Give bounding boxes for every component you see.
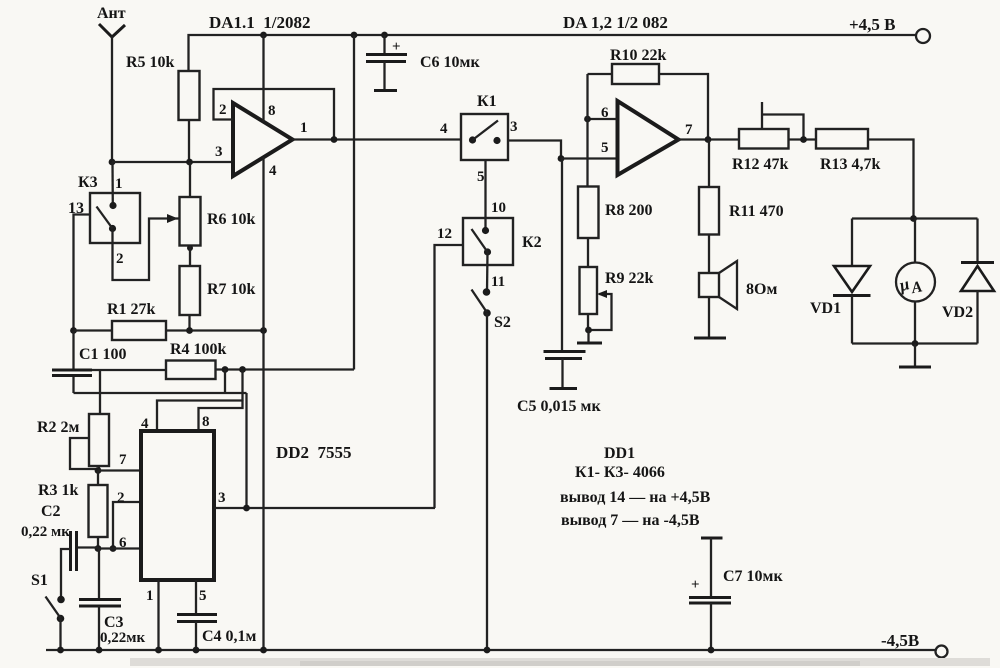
op-amp DA1.2 (601, 101, 693, 175)
svg-text:R2 2м: R2 2м (37, 419, 80, 436)
wire pin5 DA1.2 (561, 157, 618, 159)
svg-text:+: + (392, 39, 401, 55)
svg-text:R10 22k: R10 22k (610, 47, 667, 64)
analog switch K2 (463, 218, 542, 265)
svg-text:+4,5 В: +4,5 В (849, 15, 896, 34)
wire pin6 DA1.2 (588, 118, 618, 120)
node rail C7 (708, 647, 715, 654)
wire antenna to K3 pin1 (111, 162, 114, 206)
svg-text:VD2: VD2 (942, 304, 973, 321)
note DD1 (560, 445, 711, 529)
svg-text:3: 3 (218, 490, 226, 506)
svg-text:К2: К2 (522, 234, 542, 251)
svg-text:4: 4 (440, 121, 448, 137)
svg-text:1: 1 (115, 176, 123, 192)
wire bottom -4.5V rail (46, 649, 936, 651)
resistor R8 (578, 187, 653, 268)
resistor R4 (166, 341, 354, 379)
svg-text:R5 10k: R5 10k (126, 54, 175, 71)
wire DD2 pin3 output (214, 490, 435, 508)
node R1 row left (70, 327, 77, 334)
node meter bottom (899, 340, 931, 367)
wire K2 pin11 to S2 (487, 252, 505, 292)
svg-text:5: 5 (601, 140, 609, 156)
svg-text:DD1: DD1 (604, 445, 635, 462)
svg-text:5: 5 (477, 169, 485, 185)
IC DD2 7555 (141, 431, 352, 580)
wire DD2 pin8 bracket (199, 400, 243, 431)
node rail-pin8 (260, 32, 267, 39)
svg-text:R13 4,7k: R13 4,7k (820, 156, 881, 173)
wire pin3 input (112, 161, 233, 163)
svg-text:R8 200: R8 200 (605, 202, 653, 219)
wire R10 riser (586, 74, 588, 187)
svg-text:3: 3 (215, 144, 223, 160)
node R9 bottom (577, 327, 602, 343)
svg-text:вывод 7 — на -4,5В: вывод 7 — на -4,5В (561, 512, 700, 529)
svg-text:8: 8 (202, 414, 210, 430)
meter uA (896, 219, 935, 344)
node rail pin4riser (260, 647, 267, 654)
svg-text:DD2 7555: DD2 7555 (276, 443, 352, 462)
node R5-R6 (186, 159, 193, 166)
relay switch K3 (68, 174, 140, 267)
svg-text:2: 2 (117, 490, 125, 506)
svg-text:+: + (691, 577, 700, 593)
capacitor C7 (689, 538, 783, 650)
pin 4 riser DA1.1 long vertical (262, 157, 264, 650)
wire meter bottom (852, 342, 978, 344)
node rail C4 (193, 647, 200, 654)
wire R4row to R2 (99, 370, 101, 414)
wire DD2 pin2 jumper (113, 490, 141, 549)
node antenna-pin3 (109, 159, 116, 166)
svg-text:С4 0,1м: С4 0,1м (202, 628, 257, 645)
svg-text:К1: К1 (477, 93, 497, 110)
terminal -4.5V (881, 631, 948, 658)
node R7-row (186, 327, 193, 334)
resistor R2 trimmer (37, 414, 109, 471)
wire C1 bottom bus (74, 392, 247, 394)
svg-text:4: 4 (269, 163, 277, 179)
label DA1.1 (209, 13, 311, 32)
capacitor C4 (177, 615, 257, 651)
svg-text:К3: К3 (78, 174, 98, 191)
node R4-right (222, 366, 229, 393)
svg-text:12: 12 (437, 226, 452, 242)
svg-text:С7 10мк: С7 10мк (723, 568, 783, 585)
node rail pin1 (155, 647, 162, 654)
node meter top (910, 215, 917, 222)
capacitor C5 (517, 159, 601, 416)
node rail S2 (484, 647, 491, 654)
svg-text:R1 27k: R1 27k (107, 301, 156, 318)
svg-text:7: 7 (119, 452, 127, 468)
antenna Ant (97, 5, 126, 162)
svg-text:1: 1 (300, 120, 308, 136)
wire DD2 pin6 (98, 535, 141, 551)
svg-text:0,22мк: 0,22мк (100, 630, 145, 646)
capacitor C3 (79, 549, 145, 651)
node rail C3 (96, 647, 103, 654)
wire K3 pin2 to R6 wiper (113, 214, 180, 280)
wire DD2 pin4 bracket (141, 401, 243, 433)
svg-text:вывод 14 — на +4,5В: вывод 14 — на +4,5В (560, 489, 711, 506)
potentiometer R9 (580, 267, 654, 330)
svg-text:1: 1 (146, 588, 154, 604)
wire output DA1.1 (292, 138, 461, 140)
svg-text:DA 1,2 1/2 082: DA 1,2 1/2 082 (563, 13, 668, 32)
svg-text:R3 1k: R3 1k (38, 482, 79, 499)
wire feedback DA1.1 pin2 (214, 89, 335, 140)
node pin6-R8-R10 (584, 116, 591, 123)
node rail-C6 (381, 32, 388, 39)
diode VD1 (810, 219, 871, 344)
potentiometer R6 (180, 162, 256, 246)
svg-text:R6 10k: R6 10k (207, 211, 256, 228)
svg-text:2: 2 (116, 251, 124, 267)
wire DD2 pin5 (196, 580, 207, 614)
svg-text:С3: С3 (104, 614, 124, 631)
node supply drop (239, 366, 246, 400)
wire C1 to R4 (92, 369, 166, 371)
svg-text:5: 5 (199, 588, 207, 604)
capacitor C1 (52, 331, 127, 394)
wire output DA1.2 (678, 138, 739, 140)
resistor R13 (816, 129, 914, 219)
resistor R5 (126, 54, 200, 162)
paper smudge bottom (130, 658, 990, 666)
wire K1 pin5 to K2 (486, 160, 507, 229)
capacitor C6 (366, 35, 480, 91)
node rail S1 (57, 647, 64, 654)
svg-text:11: 11 (491, 274, 505, 290)
svg-text:8Ом: 8Ом (746, 281, 777, 298)
label DA1.2 (563, 13, 668, 32)
wire K3 pin13 (74, 215, 91, 331)
svg-text:С2: С2 (41, 503, 61, 520)
svg-text:VD1: VD1 (810, 300, 841, 317)
node R2 bottom pin7 (95, 467, 102, 474)
resistor R10 (588, 47, 709, 140)
op-amp DA1.1 (215, 102, 308, 179)
wire +rail drop x354 (353, 35, 355, 370)
resistor R11 (699, 140, 784, 274)
node pin5-C5 (558, 155, 565, 162)
svg-text:S2: S2 (494, 314, 511, 331)
node output-R10-R11 (705, 136, 712, 143)
node pin3-riser (243, 505, 250, 512)
svg-text:R4 100k: R4 100k (170, 341, 227, 358)
terminal +4.5V (849, 15, 930, 43)
svg-text:С6 10мк: С6 10мк (420, 54, 480, 71)
potentiometer R12 (732, 102, 816, 173)
resistor R1 (74, 301, 264, 340)
svg-text:С1 100: С1 100 (79, 346, 127, 363)
wire meter top (852, 217, 978, 219)
resistor R3 (38, 471, 108, 549)
speaker 8 Ohm (694, 261, 777, 338)
analog switch K1 (440, 93, 518, 185)
svg-text:10: 10 (491, 200, 506, 216)
svg-text:6: 6 (119, 535, 127, 551)
svg-text:S1: S1 (31, 572, 48, 589)
node R6-R7 (187, 245, 193, 266)
node row-pin4 (260, 327, 267, 334)
svg-text:3: 3 (510, 119, 518, 135)
svg-text:R9 22k: R9 22k (605, 270, 654, 287)
svg-text:7: 7 (685, 122, 693, 138)
wire DD2 pin1 (146, 580, 159, 650)
svg-text:К1- К3- 4066: К1- К3- 4066 (575, 464, 665, 481)
wire K1 out to DA1.2 pin5 (508, 141, 561, 159)
svg-text:0,22 мк: 0,22 мк (21, 524, 70, 540)
node R3-C2-C3 (95, 545, 102, 552)
svg-text:R12 47k: R12 47k (732, 156, 789, 173)
node rail-x354 (351, 32, 358, 39)
svg-text:R7 10k: R7 10k (207, 281, 256, 298)
wire DD2 pin3 riser (245, 393, 247, 508)
svg-text:8: 8 (268, 103, 276, 119)
svg-text:С5 0,015 мк: С5 0,015 мк (517, 398, 601, 415)
wire top +4.5V rail (189, 35, 917, 71)
node pin2-pin6 (110, 545, 117, 552)
svg-text:Ант: Ант (97, 5, 126, 22)
switch S2 (472, 288, 511, 650)
resistor R7 (180, 266, 256, 331)
switch S1 (31, 572, 65, 650)
svg-text:R11 470: R11 470 (729, 203, 784, 220)
svg-text:DA1.1 1/2082: DA1.1 1/2082 (209, 13, 311, 32)
diode VD2 (942, 219, 994, 344)
node R12-R13 (800, 136, 807, 143)
wire DD2 pin7 (98, 452, 141, 471)
pin 8 riser DA1.1 (262, 35, 264, 122)
svg-text:2: 2 (219, 102, 227, 118)
node output-feedback DA1.1 (331, 136, 338, 143)
svg-text:-4,5В: -4,5В (881, 631, 919, 650)
capacitor C2 (21, 503, 98, 599)
wire K2 pin12 (435, 226, 464, 508)
